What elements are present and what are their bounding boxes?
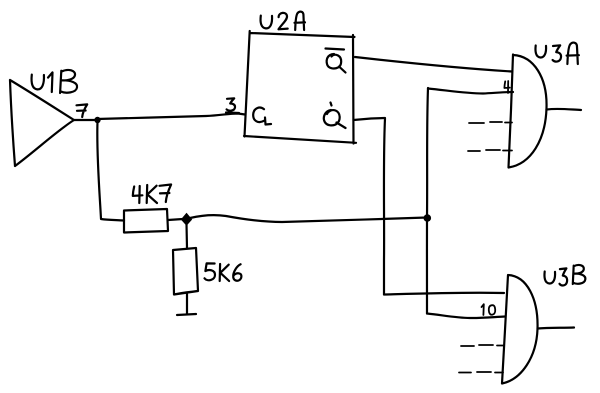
gate U3A output wire bbox=[547, 109, 582, 110]
wire Q out bbox=[354, 118, 386, 120]
pin 10 label bbox=[482, 304, 496, 315]
label 5K6 bbox=[205, 263, 242, 281]
label U3A bbox=[535, 43, 578, 64]
label U3B bbox=[544, 265, 585, 286]
label CL bbox=[253, 108, 271, 125]
resistor R 5K6 body bbox=[173, 248, 198, 295]
node A junction bbox=[94, 117, 100, 123]
U3B unused input b bbox=[459, 371, 503, 374]
wire to U3B pin10 bbox=[427, 314, 505, 319]
pin 3 label bbox=[226, 98, 239, 113]
label 4K7 bbox=[133, 185, 171, 204]
node B junction bbox=[182, 214, 192, 226]
wire node B to node C bbox=[190, 215, 427, 222]
wire node C vertical bbox=[427, 88, 428, 314]
wire node A down bbox=[97, 122, 124, 221]
wire node A to U2A bbox=[97, 114, 245, 120]
ground bbox=[177, 314, 196, 315]
wire Q down bbox=[384, 119, 385, 295]
wire to U3A pin4 bbox=[428, 89, 513, 94]
wire node B down to 5K6 bbox=[185, 224, 188, 248]
label Q bbox=[324, 103, 346, 129]
U3A unused input b bbox=[468, 150, 512, 151]
U3A unused input a bbox=[469, 122, 512, 123]
wire 4K7 to node B bbox=[168, 219, 183, 220]
wire 5K6 to ground bbox=[186, 294, 188, 314]
label U2A bbox=[261, 12, 305, 30]
label Q-bar bbox=[326, 49, 346, 73]
gate U3B output wire bbox=[538, 328, 575, 329]
wire Q across to U3B bbox=[384, 293, 504, 295]
pin 4 label bbox=[504, 81, 509, 93]
wire Q-bar to U3A bbox=[355, 57, 512, 72]
label U1B bbox=[32, 70, 78, 93]
gate U3A body bbox=[509, 55, 547, 168]
buffer U1B bbox=[10, 80, 74, 166]
node C junction bbox=[424, 214, 432, 222]
gate U3B body bbox=[502, 275, 538, 384]
U3B unused input a bbox=[461, 345, 504, 346]
pin 7 label bbox=[77, 104, 88, 117]
wire U1B out bbox=[74, 119, 97, 121]
flip-flop U2A box bbox=[244, 31, 356, 144]
resistor R 4K7 body bbox=[124, 209, 168, 233]
